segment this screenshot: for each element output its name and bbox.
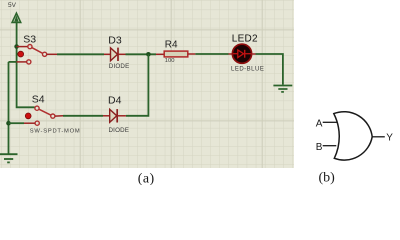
power +5V symbol [8, 2, 21, 22]
wire: S4 bottom throw to left rail junction [24, 122, 35, 124]
wire: S4 pole to D4 anode [55, 115, 63, 117]
OR gate figure [316, 112, 394, 160]
ground (bottom-left) [0, 154, 18, 162]
svg-text:Y: Y [386, 132, 393, 143]
S4 top throw contact [35, 106, 39, 110]
svg-text:A: A [316, 118, 323, 129]
wire: LED2 cathode to right ground [252, 53, 256, 55]
svg-text:5V: 5V [8, 2, 17, 9]
svg-text:LED-BLUE: LED-BLUE [231, 67, 264, 73]
S3 lever [32, 48, 43, 54]
wire: junction to S3 top contact [17, 46, 28, 48]
switch S3 [18, 34, 47, 64]
S3 top throw contact [28, 45, 32, 49]
svg-text:D3: D3 [108, 35, 122, 47]
svg-text:D4: D4 [108, 95, 122, 107]
svg-text:S4: S4 [32, 94, 45, 106]
node: junction D3/D4/R4 [146, 52, 151, 57]
S4 lever [39, 109, 51, 115]
node: junction 5V rail / S3 pole [14, 44, 19, 49]
OR gate body [334, 112, 372, 160]
S4 pole contact [51, 114, 55, 118]
node: junction left rail / S4 bottom throw [6, 121, 11, 126]
svg-text:SW-SPDT-MOM: SW-SPDT-MOM [30, 128, 81, 134]
svg-text:B: B [316, 142, 323, 153]
svg-text:S3: S3 [23, 34, 36, 46]
ground (right, under LED2) [273, 86, 292, 92]
wire: D3 cathode to R4 (through junction) [118, 53, 126, 55]
wire: input B stub [323, 145, 337, 147]
svg-text:LED2: LED2 [232, 33, 258, 44]
wire: R4 to LED2 anode [188, 53, 196, 55]
wire: junction down to D4 cathode row [126, 54, 148, 116]
schematic background sheet [0, 0, 294, 168]
svg-text:(a): (a) [138, 172, 155, 185]
wire: S3 bottom throw to left rail [16, 61, 27, 63]
diode D4 [108, 95, 129, 134]
S4 bottom throw contact [35, 121, 39, 125]
resistor R4 [164, 39, 188, 64]
wire: 5V rail vertical (power to S3 junction, down to S4 feed) [17, 22, 35, 107]
LED D2 (LED2, LED-BLUE) [231, 33, 264, 72]
svg-text:DIODE: DIODE [109, 127, 130, 134]
wire: D4 cathode stub to junction riser [117, 115, 126, 117]
wire: input A stub [323, 121, 337, 123]
svg-text:R4: R4 [165, 39, 178, 50]
svg-text:100: 100 [165, 58, 175, 64]
switch S4 [25, 94, 80, 135]
diode D3 [108, 35, 129, 71]
S3 bottom throw contact [27, 60, 31, 64]
svg-text:DIODE: DIODE [109, 63, 130, 70]
wire: output Y stub [372, 136, 385, 138]
wire: left ground rail vertical [8, 62, 10, 154]
wire: S3 pole to D3 anode [47, 53, 57, 55]
svg-text:(b): (b) [319, 170, 336, 185]
S3 actuator dot [18, 51, 24, 57]
S3 pole contact [43, 52, 47, 56]
S4 actuator dot [25, 113, 31, 119]
